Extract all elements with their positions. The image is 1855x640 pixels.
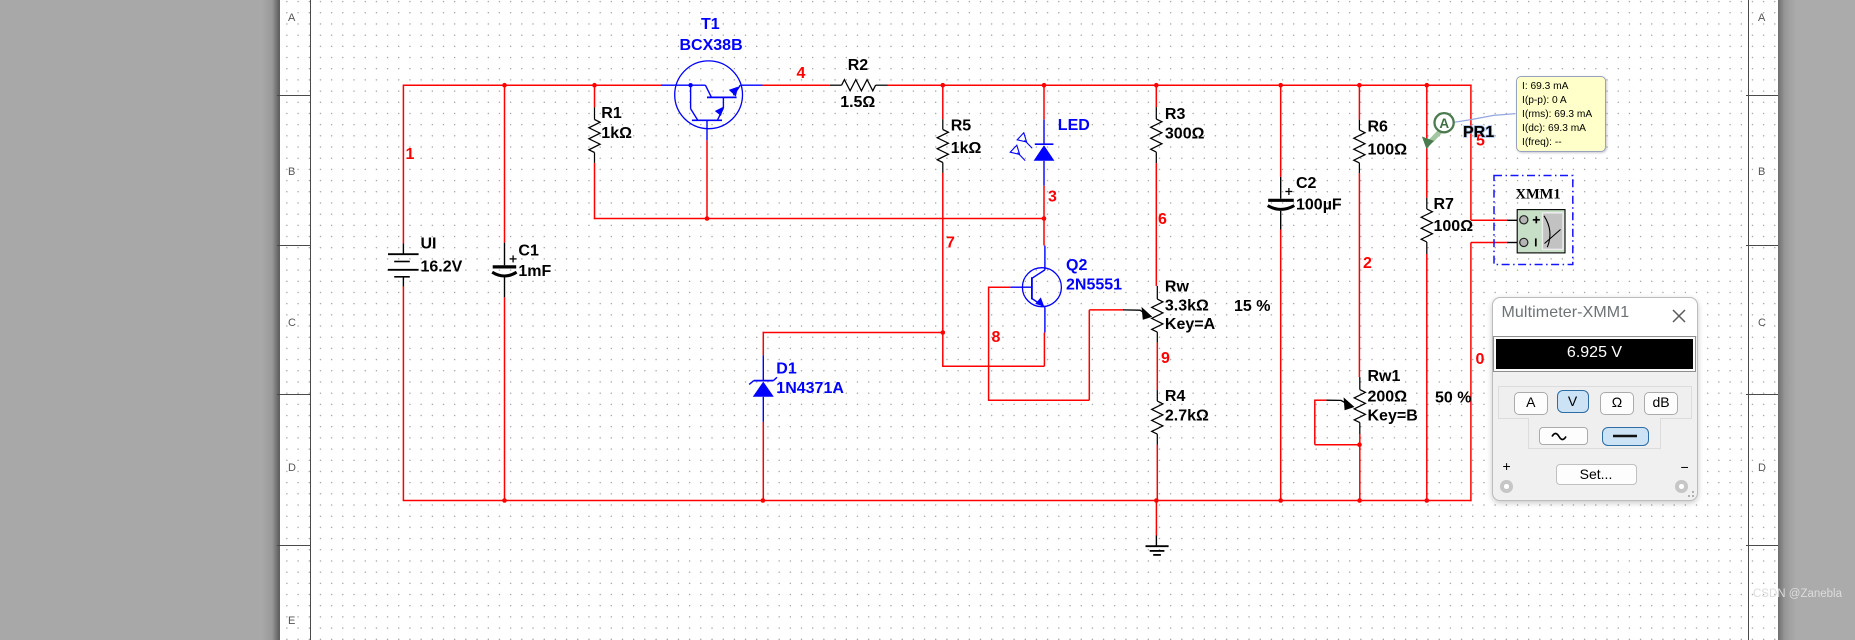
junction Rw1 wiper tie: [1357, 442, 1362, 447]
svg-text:Rw: Rw: [1165, 279, 1190, 296]
svg-text:R2: R2: [848, 57, 869, 74]
wire net5 vertical to multimeter plus: [1470, 85, 1472, 221]
svg-text:1kΩ: 1kΩ: [951, 140, 982, 157]
svg-text:1: 1: [406, 146, 415, 163]
resistor R2 1.5ohm horizontal: [830, 80, 888, 91]
svg-text:16.2V: 16.2V: [421, 258, 463, 275]
border lines: [310, 0, 311, 640]
svg-text:Key=B: Key=B: [1368, 408, 1418, 425]
svg-text:T1: T1: [701, 16, 720, 33]
svg-text:100Ω: 100Ω: [1434, 218, 1474, 235]
wire ground stub: [1155, 501, 1157, 536]
svg-text:300Ω: 300Ω: [1165, 126, 1205, 143]
wire net0 vertical to multimeter minus: [1470, 243, 1472, 502]
svg-text:2: 2: [1363, 255, 1372, 272]
probe PR1 leader line: [1454, 114, 1516, 123]
svg-text:R6: R6: [1368, 119, 1389, 136]
resistor R7: [1421, 198, 1432, 254]
watermark: [1753, 588, 1842, 600]
wire R3 column net6: [1155, 85, 1157, 107]
wire D1 column: [762, 332, 764, 356]
svg-text:100µF: 100µF: [1296, 196, 1342, 213]
junction dots top rail: [502, 83, 507, 88]
svg-text:Q2: Q2: [1066, 257, 1087, 274]
svg-text:1kΩ: 1kΩ: [601, 125, 632, 142]
potentiometer Rw 3.3k Key=A: [1152, 286, 1163, 343]
svg-text:0: 0: [1476, 351, 1485, 368]
potentiometer Rw1 200 Key=B: [1354, 377, 1365, 434]
wire Rw1 bottom: [1359, 434, 1361, 501]
Set button: [1556, 464, 1637, 485]
XMM1 instrument body: [1517, 210, 1565, 253]
left gray panel: [0, 0, 280, 640]
svg-text:C2: C2: [1296, 175, 1317, 192]
wire net3 horizontal: [594, 218, 1044, 220]
junction node3 at T1 base: [705, 216, 710, 221]
svg-text:C1: C1: [518, 243, 539, 260]
wire D1 top to node7: [763, 332, 943, 334]
svg-text:200Ω: 200Ω: [1368, 389, 1408, 406]
wire T1 emitter to R2: [763, 84, 830, 86]
junction dots bottom rail: [502, 498, 507, 503]
XMM1 pin stubs: [1507, 219, 1520, 221]
svg-text:XMM1: XMM1: [1516, 187, 1561, 203]
resistor R6: [1354, 120, 1365, 173]
svg-text:2.7kΩ: 2.7kΩ: [1165, 408, 1209, 425]
svg-text:7: 7: [946, 235, 955, 252]
resize grip: [1684, 487, 1696, 499]
svg-text:1.5Ω: 1.5Ω: [840, 94, 875, 111]
wire Rw1 wiper loop: [1315, 399, 1327, 401]
svg-text:1N4371A: 1N4371A: [776, 380, 844, 397]
svg-text:1mF: 1mF: [518, 263, 551, 280]
battery UI 16.2V: [388, 243, 419, 286]
probe PR1 arrow: [1431, 131, 1441, 142]
svg-text:BCX38B: BCX38B: [680, 37, 743, 54]
title bar: [1493, 298, 1698, 337]
probe readout box: [1516, 76, 1606, 152]
wire R5 column net7: [942, 85, 944, 119]
wire R4 to ground rail: [1156, 445, 1158, 501]
junction node7 at D1: [941, 330, 946, 335]
wire top net1 battery+ to T1: [403, 84, 661, 86]
svg-text:9: 9: [1161, 350, 1170, 367]
T1 junction dot: [688, 83, 692, 87]
wire Q2 base net8: [989, 286, 1011, 288]
Rw1 wiper arrow: [1327, 400, 1348, 404]
wire net9 Rw to R4: [1156, 342, 1158, 390]
wire C2 column: [1280, 85, 1282, 177]
waveform buttons: [1539, 427, 1588, 445]
svg-text:6: 6: [1158, 211, 1167, 228]
svg-text:4: 4: [797, 65, 806, 82]
button groups: [1498, 386, 1692, 419]
plus minus terminals: [1503, 458, 1511, 474]
ground symbol: [1146, 536, 1169, 555]
resistor R3: [1151, 107, 1162, 163]
LED: [1034, 120, 1055, 186]
wire R2 to net5 corner: [888, 84, 1472, 86]
transistor T1 BCX38B darlington: [661, 61, 763, 140]
wire R6 Rw1 column net2: [1358, 85, 1360, 120]
Q2 emitter arrow: [1035, 297, 1044, 306]
svg-text:3: 3: [1048, 189, 1057, 206]
wire R1 column: [594, 85, 596, 107]
svg-text:PR1: PR1: [1463, 124, 1494, 141]
svg-text:100Ω: 100Ω: [1368, 142, 1408, 159]
svg-text:R1: R1: [601, 105, 622, 122]
wire C1 column: [504, 85, 506, 243]
multimeter XMM1 dashed selection box: [1494, 176, 1573, 265]
multimeter window: [1492, 297, 1699, 502]
svg-text:R5: R5: [951, 118, 972, 135]
wire T1 base stub to net3: [706, 140, 708, 218]
probe PR1 circle A: [1435, 113, 1454, 132]
wire LED column: [1043, 85, 1045, 120]
zone letters: [288, 13, 295, 24]
svg-text:LED: LED: [1058, 117, 1090, 134]
svg-text:R7: R7: [1434, 196, 1455, 213]
transistor Q2 2N5551: [1010, 246, 1061, 333]
svg-text:R3: R3: [1165, 106, 1186, 123]
svg-text:D1: D1: [776, 360, 797, 377]
display: [1494, 337, 1695, 371]
zone ticks: [277, 95, 311, 96]
capacitor C2 100uF: [1268, 177, 1295, 230]
resistor R1: [589, 107, 600, 162]
resistor R4: [1152, 390, 1163, 444]
capacitor C1 1mF: [492, 243, 516, 298]
LED emission arrows: [1010, 133, 1032, 161]
wire net7 jog to Q2 emitter: [942, 333, 944, 367]
svg-text:3.3kΩ: 3.3kΩ: [1165, 298, 1209, 315]
Rw wiper arrow: [1123, 310, 1146, 314]
junction node3 at LED/Q2: [1042, 216, 1047, 221]
zener diode D1 1N4371A: [749, 355, 777, 422]
svg-text:50 %: 50 %: [1435, 390, 1471, 407]
XMM1 terminals: [1520, 216, 1528, 224]
close X: [1672, 309, 1686, 323]
wire battery column net1: [402, 85, 404, 244]
right gray panel: [1778, 0, 1855, 640]
svg-text:15 %: 15 %: [1234, 298, 1270, 315]
T1 emitter arrows: [715, 107, 724, 116]
svg-text:8: 8: [992, 329, 1001, 346]
wire bottom ground rail: [403, 500, 1472, 502]
svg-text:Key=A: Key=A: [1165, 316, 1216, 333]
wire R7 column: [1426, 85, 1428, 198]
svg-text:2N5551: 2N5551: [1066, 277, 1122, 294]
svg-text:Rw1: Rw1: [1368, 368, 1401, 385]
svg-text:A: A: [1439, 116, 1449, 131]
svg-text:UI: UI: [421, 236, 437, 253]
svg-text:R4: R4: [1165, 388, 1186, 405]
resistor R5: [937, 119, 948, 173]
